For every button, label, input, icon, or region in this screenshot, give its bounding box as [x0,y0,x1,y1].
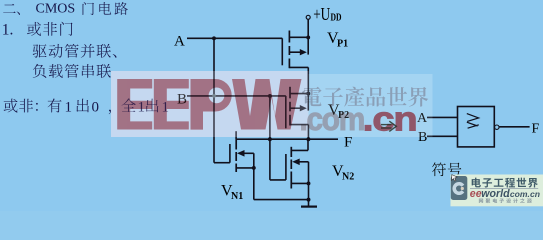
transistor VN2 [285,154,287,180]
node A branch [212,36,216,40]
node F/B crossing [268,137,272,141]
wire UDD down [307,19,309,54]
gate output bubble [495,125,499,129]
stub above F line [235,131,237,139]
wire output F line [236,138,338,140]
svg-text:CMOS: CMOS [36,2,76,17]
watermark light band right [309,74,433,137]
svg-text:world: world [481,188,510,200]
watermark letter E [117,79,152,130]
svg-text:.cn: .cn [363,101,417,139]
eeworld logo panel [451,175,543,207]
gate >= glyph [467,114,479,129]
node +UDD terminal [306,15,310,19]
svg-text:N1: N1 [231,191,243,202]
wire VP2 drain to F [307,125,309,140]
svg-text:1.: 1. [2,22,14,39]
svg-text:+U: +U [313,4,330,24]
transistor VP2 [285,96,287,128]
watermark chars dianzi chanpin shijie [302,87,428,107]
watermark light band right [309,74,433,137]
watermark letter E [154,79,189,130]
label fu hao (symbol) [432,162,461,176]
line 3 [33,44,117,58]
svg-text:P1: P1 [337,39,348,50]
watermark light band [111,71,309,137]
wire input A [187,37,282,39]
NOR gate symbol box [458,107,495,147]
node F/VP2 junction [306,137,310,141]
watermark letter W [232,79,302,130]
node VP2 source junction [306,92,310,96]
svg-text:DD: DD [331,12,342,23]
gate input A wire [427,116,458,118]
svg-text:N2: N2 [342,172,354,183]
svg-text:.com.cn: .com.cn [508,189,540,199]
line 4 [33,64,111,78]
wire ground rail [254,199,309,201]
node VP1 source junction [306,35,310,39]
logo icon square [451,176,468,200]
svg-text:ee: ee [470,188,482,200]
transistor VP1 [281,38,283,65]
transistor VN1 [214,162,230,164]
node B branch [268,94,272,98]
watermark chars dianzi chanpin shijie [302,87,428,107]
watermark letter P [191,79,232,130]
gate input B wire [427,135,458,137]
logo cursor arrow [452,175,458,182]
title line 1 [3,4,20,15]
gate output wire [499,126,529,128]
watermark letter E [154,79,189,130]
wire VP1 drain to VP2 [307,67,309,110]
logo title text [472,178,538,188]
ground symbol [308,200,310,207]
watermark light band [111,71,309,137]
line 5 huo fei [4,99,62,113]
crossing A/B (faint) [212,94,216,98]
wire A down to VN1 [213,38,215,162]
watermark letter W [232,79,302,130]
watermark letter E [117,79,152,130]
svg-text:0: 0 [92,100,100,116]
watermark letter P [191,79,232,130]
wire input B [187,95,286,97]
svg-text:F: F [532,122,540,137]
logo crescent [452,182,464,195]
svg-text:A: A [174,33,185,49]
wire B down to VN2 gate [269,96,271,180]
logo slogan [479,198,532,203]
double arrow implies [381,124,392,126]
svg-text:1: 1 [65,100,73,116]
